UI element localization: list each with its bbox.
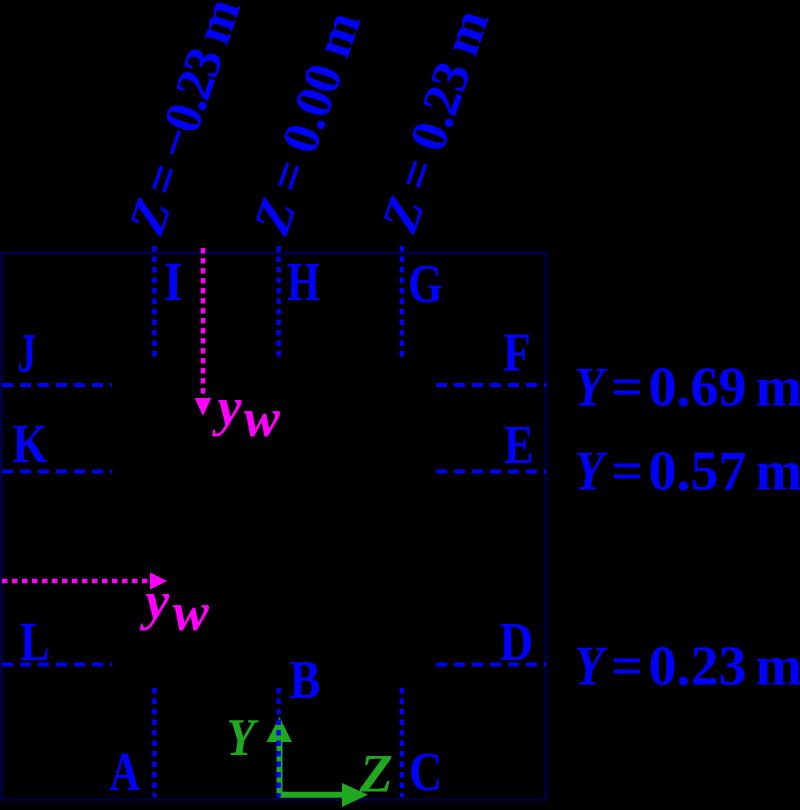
svg-text:E: E [504,414,534,476]
svg-text:K: K [13,413,48,474]
svg-text:B: B [290,650,321,711]
svg-text:C: C [409,741,442,802]
dotted line C (bottom) [400,688,405,797]
svg-text:Z = −0.23 m: Z = −0.23 m [118,0,252,242]
svg-text:Y: Y [227,708,260,766]
dashed line E (right, Y=0.57) [436,470,546,474]
svg-text:G: G [408,253,443,315]
dashed line K (left, Y=0.57) [2,470,112,474]
svg-text:F: F [503,322,531,383]
dashed line D (right, Y=0.23) [436,663,546,667]
svg-text:Z: Z [359,744,393,804]
dashed line J (left, Y=0.69) [2,383,112,387]
svg-text:Y: Y [575,635,608,697]
svg-text:=0.23m: =0.23m [611,636,800,698]
dashed line F (right, Y=0.69) [436,383,546,387]
svg-text:L: L [20,611,50,673]
green Z axis arrow [280,792,345,798]
svg-text:Z = 0.00 m: Z = 0.00 m [243,5,372,242]
dashed line L (left, Y=0.23) [2,663,112,667]
svg-text:w: w [244,388,281,448]
svg-text:=0.57m: =0.57m [611,441,800,503]
svg-text:=0.69m: =0.69m [611,357,800,419]
magenta dashed arrow yw horizontal [2,579,150,584]
dotted line Z=0.23 (top, under G) [400,246,405,360]
dotted line B (bottom) [276,688,281,797]
svg-text:D: D [500,613,534,673]
svg-text:Y: Y [575,440,608,502]
dotted line A (bottom) [152,688,157,797]
dotted line Z=0.00 (top, under H) [276,246,281,360]
svg-text:I: I [164,252,183,313]
wall outline rectangle [2,253,547,800]
svg-text:A: A [110,741,141,803]
svg-text:H: H [287,251,320,313]
dotted line Z=-0.23 (top, under I) [152,246,157,360]
magenta dashed arrow yw vertical [201,248,206,398]
svg-text:Y: Y [575,356,608,418]
svg-text:J: J [18,323,37,384]
svg-text:Z = 0.23 m: Z = 0.23 m [371,3,500,240]
svg-text:y: y [212,377,243,437]
green Y axis arrow [277,741,283,797]
svg-text:w: w [173,582,210,642]
